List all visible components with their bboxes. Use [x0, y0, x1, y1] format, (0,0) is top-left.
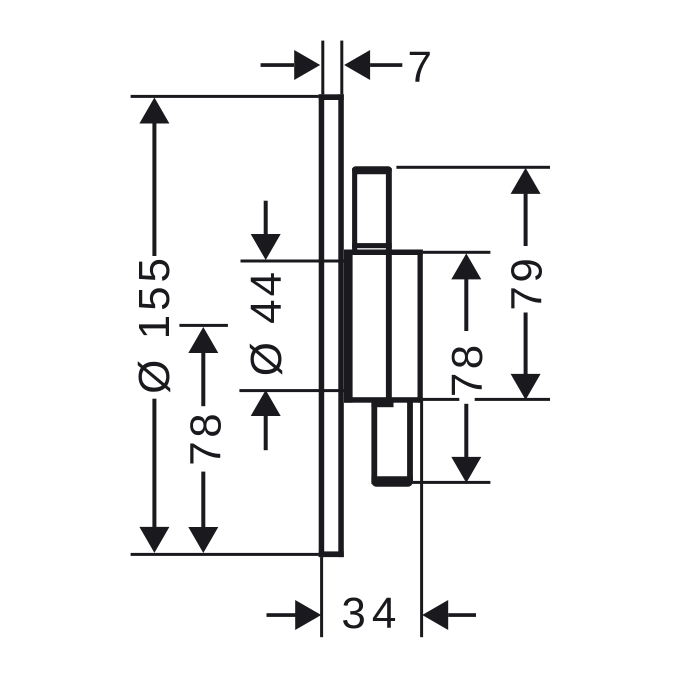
svg-text:Ø 44: Ø 44 [242, 269, 291, 376]
svg-text:79: 79 [503, 255, 552, 311]
wall plate (side view, outer rect) [319, 94, 325, 557]
extension line knob top (for 79) [396, 166, 550, 169]
svg-text:78: 78 [182, 410, 231, 466]
svg-text:7: 7 [407, 43, 431, 92]
svg-text:34: 34 [341, 589, 402, 638]
dimension 34 (bottom) [267, 613, 297, 617]
dimension diam 44 (handle) [264, 201, 268, 235]
extension line 7 right [340, 41, 343, 95]
extension line sleeve top (for 78 right) [423, 251, 491, 254]
middle sleeve [344, 250, 423, 256]
dimension 78 (left, axis to plate bottom) [188, 327, 218, 353]
svg-text:Ø 155: Ø 155 [130, 254, 179, 394]
extension line diam44 bottom [239, 389, 344, 392]
extension line sleeve bottom (for 79) [423, 398, 550, 401]
extension line 7 left [321, 41, 324, 95]
white halo where 78-right text crosses the sleeve-bottom extension line [459, 395, 474, 403]
extension line diam44 top [241, 260, 345, 263]
extension line handle axis (for 78 left) [179, 324, 228, 327]
extension line lower knob bottom (for 78 right) [413, 481, 491, 484]
dimension 78 (right, sleeve top to lower knob bottom) [451, 253, 481, 279]
lower knob [371, 399, 377, 484]
extension line plate top (for 155) [131, 95, 319, 98]
extension line 34 left [320, 557, 323, 637]
dimension 79 (knob top to sleeve bottom) [511, 168, 541, 194]
upper knob [352, 166, 392, 174]
extension line 34 right [420, 399, 423, 637]
extension line plate bottom (for 155 / 78) [131, 553, 319, 556]
dimension diam 155 (plate) [139, 98, 169, 124]
svg-text:78: 78 [443, 341, 492, 397]
dimension 7 (plate thickness) [261, 63, 294, 67]
